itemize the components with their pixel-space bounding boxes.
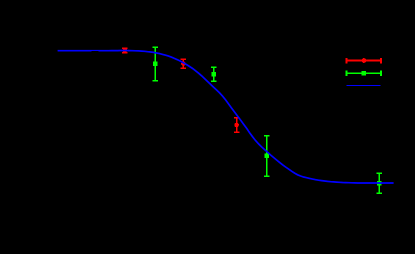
legend green sample	[346, 70, 381, 76]
legend blue sample	[347, 84, 381, 86]
green errorbar point 2	[211, 67, 217, 81]
red errorbar point 1	[122, 48, 128, 53]
black marker notch over curve	[92, 51, 99, 53]
green errorbar point 4	[377, 173, 383, 193]
blue fit curve	[58, 51, 394, 184]
green errorbar point 3	[264, 136, 270, 176]
legend red sample	[346, 58, 381, 64]
red errorbar point 2	[181, 59, 187, 68]
red errorbar point 3	[234, 118, 240, 132]
green errorbar point 1	[153, 47, 159, 81]
